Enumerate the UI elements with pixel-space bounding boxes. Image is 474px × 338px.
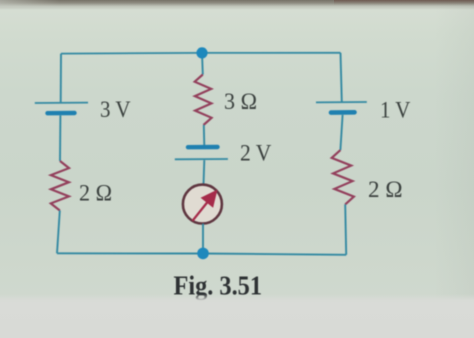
galvanometer G — [183, 185, 222, 224]
wire middle branch between resistor and battery — [203, 125, 206, 146]
wire bottom rail — [57, 253, 346, 255]
wire top rail — [61, 52, 341, 55]
wire middle branch upper — [201, 53, 204, 75]
node A junction dot top — [196, 47, 207, 58]
node B junction dot bottom — [197, 248, 209, 260]
wire right branch middle — [340, 115, 342, 150]
wire right branch lower — [345, 204, 346, 254]
wire left branch upper — [60, 54, 62, 103]
resistor R2 3ohm middle — [195, 75, 212, 126]
wire middle branch lower — [202, 224, 204, 254]
battery V1 3V — [35, 103, 88, 114]
resistor R1 2ohm left — [51, 161, 69, 211]
wire left branch middle — [59, 115, 61, 161]
wire left branch lower — [57, 211, 60, 254]
battery V2 2V — [175, 147, 228, 159]
wire middle branch between battery and galvanometer — [203, 160, 206, 185]
battery V3 1V — [316, 102, 367, 113]
resistor R3 2ohm right — [332, 150, 354, 204]
wire right branch upper — [341, 53, 342, 102]
